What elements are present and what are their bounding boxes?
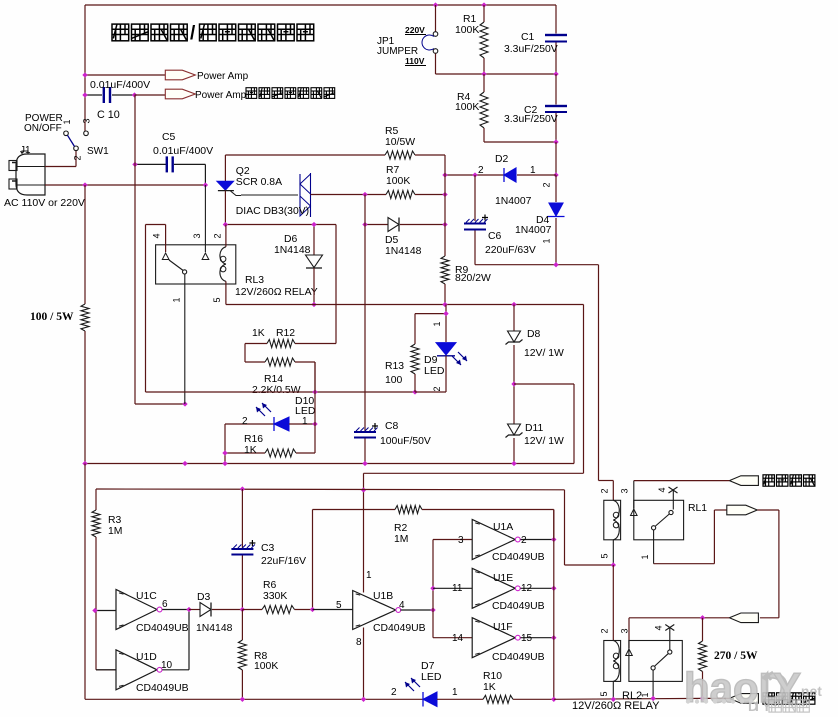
wire osc top bus xyxy=(96,489,565,510)
label CD4049UB for U1D xyxy=(136,683,189,694)
node R16 left xyxy=(222,450,227,455)
connector HV link in xyxy=(729,613,758,623)
resistor R2 xyxy=(313,506,554,541)
wire vdd drop xyxy=(565,490,614,565)
svg-text:4: 4 xyxy=(657,487,667,492)
node R14 bottom xyxy=(312,389,317,394)
label C8 xyxy=(385,421,399,432)
svg-text:CD4049UB: CD4049UB xyxy=(492,601,545,612)
pin 12 of U1E xyxy=(521,583,533,594)
node R1 bottom xyxy=(481,71,486,76)
label D2 xyxy=(495,154,509,165)
svg-text:10/5W: 10/5W xyxy=(385,137,415,148)
svg-text:D2: D2 xyxy=(495,154,509,165)
svg-text:D6: D6 xyxy=(284,234,298,245)
wire Q2 cathode bus xyxy=(225,225,336,344)
pin 5 of RL1 xyxy=(600,553,610,558)
resistor R12 xyxy=(245,340,336,348)
svg-text:2: 2 xyxy=(600,488,610,493)
svg-text:12V/260Ω RELAY: 12V/260Ω RELAY xyxy=(235,287,318,298)
svg-text:1: 1 xyxy=(432,321,442,326)
connector Power Amp 2 xyxy=(165,89,195,99)
node RL2 pin1 rail xyxy=(650,696,655,701)
pin 2 of RL2 xyxy=(600,628,610,633)
inverter U1C xyxy=(95,590,189,630)
svg-text:1: 1 xyxy=(542,238,552,243)
svg-text:1M: 1M xyxy=(108,526,122,537)
svg-text:1: 1 xyxy=(640,554,650,559)
node U1F out xyxy=(551,635,556,640)
svg-text:I: I xyxy=(755,698,759,714)
label D4 xyxy=(536,215,550,226)
svg-text:1N4148: 1N4148 xyxy=(274,245,311,256)
svg-text:2.2K/0.5W: 2.2K/0.5W xyxy=(252,385,301,396)
node Q2 cathode xyxy=(223,222,228,227)
wire D9 box top xyxy=(415,313,446,315)
node U1C in xyxy=(92,608,97,613)
svg-text:1: 1 xyxy=(172,297,182,302)
svg-text:12V/ 1W: 12V/ 1W xyxy=(524,348,564,359)
label R13 100 xyxy=(385,361,404,386)
wire HV mid xyxy=(629,618,729,648)
label 1N4007 for D2 xyxy=(495,196,532,207)
label RL1 xyxy=(688,503,707,514)
node D2 right xyxy=(553,172,558,177)
label D3 xyxy=(197,592,211,603)
pin 8 of U1B xyxy=(356,637,362,648)
node 100ohm top xyxy=(82,182,87,187)
svg-text:CD4049UB: CD4049UB xyxy=(373,623,426,634)
node C5 left xyxy=(132,162,137,167)
relay RL2 contacts xyxy=(626,625,683,699)
node D6 bottom xyxy=(311,302,316,307)
connector 高壓輸出 xyxy=(729,694,758,704)
wire JP1 mid rail xyxy=(436,73,557,75)
node D6 top xyxy=(311,222,316,227)
label JP1 JUMPER xyxy=(377,36,418,57)
inverter U1F xyxy=(472,618,554,658)
wire power amp 1 xyxy=(85,74,165,76)
node U1B out xyxy=(430,607,435,612)
label 12V 1W for D8 xyxy=(524,348,564,359)
node D2 left xyxy=(442,172,447,177)
svg-text:Q2: Q2 xyxy=(236,166,250,177)
pin 3 of RL3 xyxy=(192,233,202,238)
label 220V position xyxy=(405,25,426,35)
node rail R16 xyxy=(222,461,227,466)
pin 2 of D9 xyxy=(432,386,442,391)
label 100 / 5W xyxy=(30,311,74,323)
pin 2 of U1A xyxy=(521,535,527,546)
node JP1 top xyxy=(433,2,438,7)
pin 1 of D2 xyxy=(530,165,536,176)
node U1A out xyxy=(551,537,556,542)
svg-text:RL3: RL3 xyxy=(245,275,264,286)
label RL3 xyxy=(245,275,264,286)
svg-text:4: 4 xyxy=(399,600,405,611)
wire 12V node xyxy=(475,264,599,266)
svg-text:4: 4 xyxy=(654,625,664,630)
wire C10 to arrow2 xyxy=(135,94,166,96)
node C2 bottom xyxy=(553,139,558,144)
node RL3 pin1 mid xyxy=(182,401,187,406)
node U1B pin8 rail xyxy=(361,697,366,702)
node rail inv bus xyxy=(551,697,556,702)
pin 5 of U1B xyxy=(336,600,342,611)
svg-text:12V/260Ω RELAY: 12V/260Ω RELAY xyxy=(572,700,660,712)
label U1E xyxy=(493,573,513,584)
resistor 270/5W xyxy=(699,618,707,699)
svg-text:R6: R6 xyxy=(263,580,277,591)
svg-text:5: 5 xyxy=(212,297,222,302)
svg-text:2: 2 xyxy=(242,416,248,427)
label 12V 1W for D11 xyxy=(524,436,564,447)
node D3 in xyxy=(186,607,191,612)
jumper JP1 xyxy=(422,5,438,74)
node C3 top xyxy=(240,486,245,491)
node U1E out xyxy=(551,586,556,591)
node C5 right xyxy=(203,182,208,187)
connector Power Amp 1 xyxy=(165,70,195,80)
svg-text:1: 1 xyxy=(302,416,308,427)
resistor R10 xyxy=(483,695,554,703)
svg-text:3: 3 xyxy=(620,628,630,633)
svg-text:RL1: RL1 xyxy=(688,503,707,514)
pin 4 of RL3 xyxy=(152,233,162,238)
resistor R5 xyxy=(225,151,445,175)
svg-text:3.3uF/250V: 3.3uF/250V xyxy=(504,114,558,125)
svg-text:1N4007: 1N4007 xyxy=(495,196,532,207)
node 270 top xyxy=(700,615,705,620)
svg-text:Power Amp: Power Amp xyxy=(195,90,247,101)
svg-text:3.3uF/250V: 3.3uF/250V xyxy=(504,44,558,55)
svg-text:8: 8 xyxy=(356,637,362,648)
label D7 LED xyxy=(421,660,442,683)
svg-text:220V: 220V xyxy=(405,25,425,35)
resistor R9 xyxy=(441,175,449,305)
label 高壓輸入 xyxy=(763,475,815,486)
node R7 right xyxy=(442,192,447,197)
label 12V/260Ω RELAY for RL3 xyxy=(235,287,318,298)
svg-text:R10: R10 xyxy=(483,671,502,682)
relay RL2 coil xyxy=(604,641,621,700)
resistor R13 xyxy=(411,314,419,392)
svg-text:U1C: U1C xyxy=(136,591,157,602)
svg-text:LED: LED xyxy=(424,365,445,377)
svg-text:.net: .net xyxy=(797,683,822,699)
label R14 xyxy=(264,374,283,385)
label 電源變壓器初級 xyxy=(246,88,335,99)
svg-text:3: 3 xyxy=(620,488,630,493)
pin 1 of RL3 xyxy=(172,297,182,302)
pin 5 of RL2 xyxy=(599,691,609,696)
svg-text:J1: J1 xyxy=(20,145,31,156)
resistor R7 xyxy=(365,191,445,199)
node R9 bottom xyxy=(442,302,447,307)
connector HV link out xyxy=(727,505,758,515)
label R6 330K xyxy=(263,580,287,602)
svg-text:CD4049UB: CD4049UB xyxy=(136,623,189,634)
wire HV link xyxy=(757,510,779,618)
svg-text:1N4148: 1N4148 xyxy=(385,246,422,257)
node D4 bottom xyxy=(553,262,558,267)
svg-text:1K: 1K xyxy=(244,445,257,456)
resistor 100/5W xyxy=(81,185,89,464)
LED D9 arrows xyxy=(452,352,467,365)
svg-text:100K: 100K xyxy=(455,25,479,36)
diode D6 xyxy=(306,225,323,305)
label 1N4148 for D3 xyxy=(196,623,233,634)
node U1B in xyxy=(310,607,315,612)
capacitor C8 xyxy=(354,423,378,464)
svg-text:330K: 330K xyxy=(263,591,287,602)
wire RL2 feed xyxy=(612,565,614,641)
node C10 right xyxy=(132,92,137,97)
svg-text:SW1: SW1 xyxy=(87,146,109,157)
label R16 1K xyxy=(244,434,263,456)
wire R2 left drop xyxy=(312,510,314,611)
svg-text:C1: C1 xyxy=(521,32,535,43)
pin 11 of U1E xyxy=(452,583,463,594)
wire C2 to D2 node xyxy=(555,142,557,175)
label Q2 xyxy=(236,166,250,177)
relay RL1 contacts xyxy=(631,481,684,564)
label SW1 xyxy=(87,146,109,157)
pin 6 of U1C xyxy=(162,599,168,610)
label U1C xyxy=(136,591,157,602)
svg-text:C6: C6 xyxy=(488,231,502,242)
svg-text:LED: LED xyxy=(295,405,316,417)
pin 2 of RL3 xyxy=(213,233,223,238)
svg-text:1: 1 xyxy=(530,165,536,176)
svg-text:D3: D3 xyxy=(197,592,211,603)
wire left outer xyxy=(85,464,242,700)
wire coil return drop xyxy=(364,305,584,593)
label R1 100K xyxy=(455,14,479,36)
label 12V/260Ω RELAY for RL2 xyxy=(572,700,660,712)
svg-text:1N4148: 1N4148 xyxy=(196,623,233,634)
LED D7 xyxy=(423,692,483,707)
label R10 1K xyxy=(483,671,502,693)
pin 2 of D2 xyxy=(478,165,484,176)
svg-text:U1F: U1F xyxy=(493,622,513,633)
inverter U1E xyxy=(433,568,554,608)
label D8 xyxy=(527,329,541,340)
pin 15 of U1F xyxy=(521,633,533,644)
node rail C8 xyxy=(362,461,367,466)
label CD4049UB for U1E xyxy=(492,601,545,612)
pin 3 of RL2 xyxy=(620,628,630,633)
wire RL1 pin1 out xyxy=(654,510,727,564)
label C3 xyxy=(261,543,275,554)
svg-text:270 / 5W: 270 / 5W xyxy=(714,650,758,662)
svg-text:R7: R7 xyxy=(386,165,400,176)
svg-text:10: 10 xyxy=(161,660,173,671)
svg-text:R13: R13 xyxy=(385,361,404,372)
resistor R6 xyxy=(242,606,312,614)
wire D9 box bottom xyxy=(415,391,446,393)
svg-text:CD4049UB: CD4049UB xyxy=(136,683,189,694)
label J1 xyxy=(20,145,31,156)
svg-text:DIAC DB3(30V): DIAC DB3(30V) xyxy=(236,206,309,217)
svg-text:3: 3 xyxy=(458,535,464,546)
label U1B xyxy=(373,591,393,602)
node D5 right xyxy=(442,222,447,227)
svg-text:820/2W: 820/2W xyxy=(455,273,491,284)
svg-text:1K: 1K xyxy=(252,328,265,339)
wire U1B pin8 xyxy=(363,628,365,700)
LED D7 arrows xyxy=(405,678,420,691)
svg-text:R3: R3 xyxy=(108,515,122,526)
label R12 xyxy=(276,328,295,339)
capacitor C10 xyxy=(85,87,135,103)
svg-text:R5: R5 xyxy=(385,126,399,137)
svg-text:0.01uF/400V: 0.01uF/400V xyxy=(90,79,150,91)
resistor R14 xyxy=(245,344,315,393)
diode D3 xyxy=(189,603,242,617)
zener D11 xyxy=(506,384,523,464)
svg-text:110V: 110V xyxy=(405,56,425,66)
svg-text:D5: D5 xyxy=(385,235,399,246)
label D9 LED xyxy=(424,354,445,377)
label DIAC DB3(30V) xyxy=(236,206,309,217)
wire bottom rail left xyxy=(242,698,423,700)
label C2 3.3uF/250V xyxy=(504,105,558,125)
pin 2 of D4 xyxy=(542,182,552,187)
pin 4 of RL1 xyxy=(657,487,667,492)
node D8 top xyxy=(511,302,516,307)
label 1N4148 for D6 xyxy=(274,245,311,256)
svg-text:D11: D11 xyxy=(525,423,544,434)
svg-text:5: 5 xyxy=(600,553,610,558)
label CD4049UB for U1A xyxy=(492,552,545,563)
svg-text:D8: D8 xyxy=(527,329,541,340)
title 燈絲緩衝/高壓緩送電路 xyxy=(112,23,314,44)
pin 4 of RL2 xyxy=(654,625,664,630)
zener D8 xyxy=(506,305,523,385)
resistor R1 xyxy=(480,5,488,74)
label 2.2K/0.5W xyxy=(252,385,301,396)
label 1K for R12 xyxy=(252,328,265,339)
wire coil return xyxy=(226,304,584,306)
svg-text:R16: R16 xyxy=(244,434,263,445)
svg-text:C5: C5 xyxy=(162,132,176,143)
label SCR 0.8A xyxy=(236,177,282,188)
wire HV in xyxy=(634,480,730,482)
label C5 xyxy=(162,132,176,143)
label C10 xyxy=(97,109,120,121)
pin 3 of U1A xyxy=(458,535,464,546)
svg-text:/: / xyxy=(190,23,196,44)
inverter U1B xyxy=(313,591,434,630)
pin 1 of RL1 xyxy=(640,554,650,559)
node D10 right xyxy=(312,421,317,426)
pin 1 of D10 xyxy=(302,416,308,427)
pin 2 of RL1 xyxy=(600,488,610,493)
svg-text:14: 14 xyxy=(452,633,464,644)
pin 3 of SW1 xyxy=(82,118,92,123)
svg-text:R1: R1 xyxy=(463,14,477,25)
wire HV out xyxy=(703,697,730,699)
svg-text:CD4049UB: CD4049UB xyxy=(492,552,545,563)
pin 1 of RL2 xyxy=(640,692,650,697)
label R3 1M xyxy=(108,515,122,537)
label CD4049UB for U1C xyxy=(136,623,189,634)
svg-text:Power Amp: Power Amp xyxy=(197,71,249,82)
relay RL3 xyxy=(146,185,236,404)
svg-text:2: 2 xyxy=(542,182,552,187)
label R7 100K xyxy=(386,165,410,187)
label 1N4148 for D5 xyxy=(385,246,422,257)
capacitor C3 xyxy=(231,489,255,611)
label RL2 xyxy=(622,690,642,702)
SCR Q2 xyxy=(217,155,241,225)
svg-text:R14: R14 xyxy=(264,374,283,385)
LED D10 arrows xyxy=(256,403,271,416)
svg-text:6: 6 xyxy=(162,599,168,610)
pin 10 of U1D xyxy=(161,660,173,671)
LED D10 xyxy=(225,417,315,431)
diode D2 xyxy=(445,168,556,182)
pin 1 of D4 xyxy=(542,238,552,243)
node D8 D11 mid xyxy=(511,381,516,386)
svg-text:100K: 100K xyxy=(386,176,410,187)
label R8 100K xyxy=(254,651,278,672)
resistor R16 xyxy=(225,362,315,464)
label R4 100K xyxy=(455,92,479,113)
label C6 xyxy=(488,231,502,242)
label 270 / 5W xyxy=(714,650,758,662)
pin 2 of D10 xyxy=(242,416,248,427)
svg-text:4: 4 xyxy=(152,233,162,238)
node RL2 pin5 rail xyxy=(611,697,616,702)
wire top rail xyxy=(85,5,556,133)
node R13 bottom xyxy=(412,389,417,394)
node C1 bottom xyxy=(553,71,558,76)
pin 1 of U1B xyxy=(366,570,372,581)
svg-text:U1B: U1B xyxy=(373,591,393,602)
label 22uF/16V xyxy=(261,556,306,567)
label R2 1M xyxy=(394,523,408,545)
pin 1 of D7 xyxy=(452,687,458,698)
label CD4049UB for U1F xyxy=(492,652,545,663)
node C6 top xyxy=(472,172,477,177)
label 0.01uF/400V for C10 xyxy=(90,79,150,91)
node rail D11 xyxy=(511,461,516,466)
label Power Amp 1 xyxy=(197,71,249,82)
svg-text:220uF/63V: 220uF/63V xyxy=(485,245,536,256)
pin 2 of SW1 xyxy=(73,155,83,160)
switch SW1 xyxy=(45,131,88,167)
node C10 left top xyxy=(82,72,87,77)
inverter U1A xyxy=(472,520,554,560)
resistor R4 xyxy=(480,74,556,142)
capacitor C6 xyxy=(464,175,488,265)
svg-text:2: 2 xyxy=(73,155,83,160)
node rail 100ohm xyxy=(82,461,87,466)
label 220uF/63V xyxy=(485,245,536,256)
capacitor C2 xyxy=(545,74,567,142)
label CD4049UB for U1B xyxy=(373,623,426,634)
label U1D xyxy=(136,652,157,663)
svg-text:5: 5 xyxy=(336,600,342,611)
node RL1 pin5 xyxy=(611,562,616,567)
svg-text:12: 12 xyxy=(521,583,533,594)
svg-text:SCR 0.8A: SCR 0.8A xyxy=(236,177,282,188)
node R8 bottom xyxy=(240,697,245,702)
label R5 10/5W xyxy=(385,126,415,148)
label 110V position xyxy=(405,56,426,66)
